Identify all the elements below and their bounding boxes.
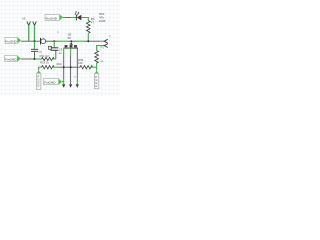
ferrite bead FB50 <box>41 38 46 45</box>
ground arrow 2 <box>69 84 72 87</box>
svg-text:100n: 100n <box>56 62 62 66</box>
svg-text:47: 47 <box>91 20 95 24</box>
wire <box>60 40 68 42</box>
net label FMGND (left lower) <box>5 56 21 62</box>
wire <box>34 25 36 41</box>
svg-text:FmGND: FmGND <box>5 58 17 62</box>
svg-text:FmGND: FmGND <box>5 39 17 43</box>
wire <box>97 46 105 51</box>
wire <box>63 17 65 19</box>
wire <box>52 66 57 68</box>
background <box>0 0 120 96</box>
resistor R53 <box>42 66 55 69</box>
junction <box>34 58 36 60</box>
port PGND (vertical right) <box>94 70 98 88</box>
wire <box>46 40 60 42</box>
wire <box>70 56 72 84</box>
wire <box>63 48 65 53</box>
wire <box>28 25 30 41</box>
junction <box>63 66 65 68</box>
resistor R55 (vertical) <box>95 51 99 64</box>
svg-text:6V: 6V <box>68 36 72 40</box>
wire row3 corner <box>38 67 41 70</box>
svg-text:10k: 10k <box>78 61 83 65</box>
wire <box>71 17 76 19</box>
svg-text:D: D <box>95 84 97 88</box>
capacitor C50 <box>31 41 38 59</box>
resistor R54 <box>80 66 93 69</box>
svg-text:FmGND: FmGND <box>46 16 58 20</box>
value text C52 <box>59 48 63 55</box>
wire <box>96 62 98 70</box>
wire <box>84 40 99 42</box>
wire <box>87 33 89 41</box>
pin arrow (header pin 2) <box>33 22 37 26</box>
svg-text:P: P <box>109 35 111 39</box>
wire <box>21 40 40 42</box>
net label FMGND (top) <box>45 14 63 20</box>
wire <box>82 18 89 21</box>
wire <box>58 66 81 68</box>
svg-text:R52 4k7: R52 4k7 <box>40 54 51 58</box>
ground arrow 1 <box>62 84 65 87</box>
wire <box>76 48 78 79</box>
capacitor C52 (polarized) <box>48 41 58 59</box>
svg-text:2u: 2u <box>59 51 62 55</box>
wire <box>21 58 33 60</box>
ground arrow 3 <box>76 84 79 87</box>
wire <box>99 40 104 42</box>
grid <box>0 0 120 96</box>
junction <box>34 40 36 42</box>
wire <box>62 81 64 83</box>
junction <box>70 66 72 68</box>
wire <box>70 48 72 56</box>
svg-text:FmGND: FmGND <box>44 81 56 85</box>
net label FMGND (left upper) <box>5 37 21 43</box>
wire <box>77 40 85 42</box>
svg-text:D: D <box>38 84 40 88</box>
junction <box>87 40 89 42</box>
sheet connector arrow (upper) <box>104 39 108 43</box>
resistor R52 <box>42 57 55 60</box>
svg-text:R5: R5 <box>100 60 104 64</box>
wire <box>63 79 65 84</box>
wire <box>63 53 65 79</box>
svg-text:P5: P5 <box>101 46 105 50</box>
resistor R51 (vertical) <box>87 21 91 34</box>
wire <box>52 58 56 60</box>
pin arrow (header pin 1) <box>27 22 31 26</box>
svg-text:R53 1k: R53 1k <box>40 60 49 64</box>
wire <box>68 40 77 42</box>
value text R54 <box>78 58 84 65</box>
TVS diode D52 <box>63 33 78 48</box>
sheet connector arrow (lower) <box>104 44 108 48</box>
wire <box>76 79 78 84</box>
svg-text:b5: b5 <box>22 16 26 20</box>
wire <box>91 66 97 68</box>
junction <box>53 40 55 42</box>
svg-text:1206: 1206 <box>99 19 106 23</box>
svg-text:C5: C5 <box>39 50 43 54</box>
LED D50 <box>75 11 82 20</box>
value text R51 <box>91 12 106 24</box>
port PGND (vertical left) <box>37 70 41 89</box>
net label FMGND (bottom) <box>44 79 63 85</box>
wire <box>65 17 71 19</box>
wire <box>33 58 42 60</box>
junction <box>70 40 72 42</box>
